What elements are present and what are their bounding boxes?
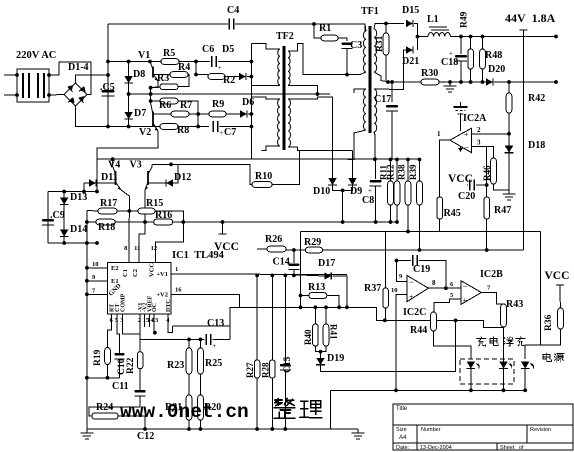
resistor R44: [431, 312, 437, 331]
inductor L1: [429, 27, 449, 30]
junction: [250, 125, 254, 129]
wire pin1 rail: [171, 273, 347, 276]
wire R2 to D5: [225, 76, 239, 78]
wire C5 column: [107, 24, 109, 127]
junction: [299, 294, 303, 298]
diode D11: [89, 179, 96, 186]
capacitor C19: [413, 255, 418, 266]
wire R7 to R9: [189, 113, 209, 115]
capacitor C8: [370, 180, 382, 183]
junction: [384, 22, 388, 26]
diode D7: [124, 112, 133, 119]
resistor R21: [186, 395, 192, 420]
junction: [95, 241, 99, 245]
wire R24 right: [118, 416, 145, 429]
junction: [394, 388, 398, 392]
junction: [250, 112, 254, 116]
junction: [255, 274, 259, 278]
svg-text:10: 10: [92, 261, 99, 268]
wire R40R41 join: [315, 346, 326, 352]
TF1 secondary upper: [374, 29, 377, 72]
dashed indicator box: [460, 359, 514, 384]
junction: [554, 35, 558, 39]
junction: [250, 60, 254, 64]
svg-text:+: +: [409, 293, 414, 302]
junction: [194, 60, 198, 64]
ground: [449, 82, 451, 86]
junction: [395, 158, 399, 162]
wire C10 col: [119, 352, 121, 354]
resistor R8: [160, 124, 178, 130]
junction: [111, 157, 115, 161]
resistor R27: [254, 360, 260, 378]
wire R40 col: [314, 307, 316, 324]
wire C2 pin up: [139, 222, 145, 263]
wire rail250 start: [257, 248, 267, 250]
wire TF2 prim upper bot: [251, 84, 280, 86]
wire D6 to node: [248, 113, 251, 115]
svg-text:R45: R45: [444, 208, 461, 219]
wire TF2 sec lower bot: [288, 147, 353, 151]
resistor R41: [323, 324, 329, 346]
junction: [127, 92, 131, 96]
wire pin1 to D17: [294, 275, 325, 276]
junction: [324, 305, 328, 309]
wire D10 drop: [342, 190, 344, 222]
resistor R15: [138, 208, 155, 214]
svg-text:C20: C20: [458, 191, 475, 202]
junction: [554, 80, 558, 84]
wire bottom rail: [87, 428, 358, 430]
wire base rail y61: [108, 61, 196, 63]
capacitor C11: [135, 390, 146, 393]
wire TF2 node column: [250, 44, 252, 160]
wire C14 bot: [293, 269, 295, 274]
diode D21: [406, 46, 413, 53]
diode D6: [240, 110, 247, 117]
wire C9 column: [47, 192, 49, 244]
junction: [255, 427, 259, 431]
svg-text:R37: R37: [364, 283, 381, 294]
AC line filter T0: [17, 69, 49, 102]
junction: [196, 112, 200, 116]
svg-text:+: +: [219, 129, 223, 137]
junction: [389, 220, 393, 224]
wire rail82 mid: [439, 81, 486, 83]
svg-text:C3: C3: [350, 40, 362, 51]
diode D5: [239, 73, 246, 80]
wire rail211 right: [155, 211, 183, 222]
svg-text:R23: R23: [167, 360, 184, 371]
wire R11 down: [390, 205, 392, 222]
wire COMP to R22: [122, 314, 140, 352]
svg-text:D7: D7: [134, 108, 146, 119]
junction: [406, 230, 410, 234]
junction: [250, 75, 254, 79]
wire TF2 sec upper bot: [288, 85, 317, 94]
svg-text:+: +: [212, 342, 216, 350]
wire D15 out: [414, 24, 418, 51]
terminal marker: [520, 30, 528, 37]
wire x540 drop: [540, 232, 542, 346]
wire V3 emitter: [144, 190, 146, 222]
svg-text:R31: R31: [375, 35, 385, 52]
wire IC2A minus in: [471, 146, 486, 185]
resistor R40: [313, 324, 319, 346]
wire TF1 prim bot: [347, 72, 366, 75]
wire D11 cathode: [96, 182, 116, 184]
wire rail222 right: [173, 221, 397, 223]
wire TF1 leftlower bot: [348, 130, 366, 160]
svg-text:R3: R3: [157, 73, 169, 84]
svg-text:Title: Title: [396, 406, 408, 412]
junction: [95, 190, 99, 194]
junction: [292, 274, 296, 278]
svg-text:VCC: VCC: [149, 263, 156, 277]
wire IC2C minus: [397, 261, 408, 282]
wire R9 to D6: [226, 113, 240, 115]
wire TF1 sec upper top: [374, 24, 404, 30]
junction: [374, 220, 378, 224]
wire R31 bottom: [385, 55, 387, 81]
resistor R6: [160, 98, 178, 104]
junction: [194, 73, 198, 77]
wire IC2C out: [428, 287, 461, 289]
wire C18 down: [460, 61, 462, 82]
wire AC in top: [4, 74, 17, 76]
wire R36 bot: [525, 329, 560, 359]
wire LED rail to gnd: [330, 390, 332, 429]
junction: [181, 220, 185, 224]
wire C19 loop left: [397, 260, 412, 262]
svg-text:R9: R9: [212, 99, 224, 110]
wire R36 top: [559, 295, 562, 308]
wire R27 bot: [256, 378, 258, 429]
svg-text:−: −: [464, 143, 469, 153]
wire LED2 bot: [503, 369, 505, 391]
resistor R18: [96, 219, 115, 225]
svg-text:R27: R27: [245, 362, 255, 378]
svg-text:C8: C8: [362, 195, 374, 206]
TF1 secondary lower: [374, 89, 377, 132]
wire bridge top out: [76, 75, 109, 83]
wire bridge bottom out: [76, 106, 109, 127]
wire -V2 stub: [144, 314, 146, 327]
wire vert x300 lower: [300, 296, 302, 308]
resistor R10: [252, 182, 272, 188]
resistor R17: [98, 208, 117, 214]
svg-text:C14: C14: [273, 257, 290, 268]
svg-text:R48: R48: [485, 50, 502, 61]
wire D8 column: [128, 62, 130, 127]
svg-text:D5: D5: [222, 44, 234, 55]
svg-text:+: +: [463, 296, 468, 305]
wire R23 col: [188, 339, 190, 348]
wire IC2A plus in: [471, 133, 509, 135]
wire R13 left: [301, 295, 309, 297]
junction: [148, 60, 152, 64]
junction: [507, 132, 511, 136]
wire C3 down: [346, 49, 348, 75]
resistor R4: [170, 72, 188, 78]
svg-text:1: 1: [175, 266, 178, 273]
wire D5 to node: [247, 76, 251, 78]
wire R46 bot: [494, 184, 510, 190]
svg-text:R22: R22: [126, 357, 136, 374]
junction: [507, 80, 511, 84]
resistor R16: [154, 219, 173, 225]
wire C6 to node: [218, 61, 251, 63]
junction: [341, 220, 345, 224]
wire C1 pin up: [128, 211, 130, 263]
svg-text:R29: R29: [304, 237, 321, 248]
wire -V1 wire: [139, 314, 141, 339]
wire R3-R4 join: [178, 75, 189, 87]
wire gnd link y378: [87, 377, 120, 379]
junction: [454, 319, 458, 323]
wire TF1 sec lower top: [374, 50, 406, 90]
junction: [386, 80, 390, 84]
diode D18: [505, 146, 514, 153]
wire TF2 sec lower top: [288, 97, 333, 178]
wire IC2B plus: [434, 299, 461, 314]
wire R28 bot: [271, 378, 273, 429]
svg-text:8: 8: [432, 279, 436, 287]
svg-text:D12: D12: [174, 172, 191, 183]
wire TF1 leftlower top: [354, 89, 366, 93]
svg-text:16: 16: [175, 286, 182, 293]
IC U1 TL494 body: [108, 263, 172, 315]
junction: [47, 93, 51, 97]
wire C17 column: [391, 82, 393, 102]
label charge: [477, 337, 499, 346]
wire R3 left: [151, 87, 160, 88]
wire R48 top: [482, 37, 484, 50]
svg-text:C15: C15: [283, 356, 293, 373]
svg-text:C1: C1: [122, 269, 129, 277]
junction: [314, 305, 318, 309]
junction: [319, 350, 323, 354]
wire C8 down: [375, 186, 377, 222]
TF2 secondary lower: [288, 99, 290, 147]
svg-text:R39: R39: [408, 164, 418, 180]
svg-text:Number: Number: [421, 427, 441, 433]
svg-text:D15: D15: [402, 5, 419, 16]
svg-text:3: 3: [477, 139, 481, 147]
wire R49 top: [470, 37, 472, 50]
junction: [106, 125, 110, 129]
wire gnd to IC2A: [460, 113, 462, 131]
op-amp IC2B: [461, 281, 481, 305]
junction: [187, 427, 191, 431]
resistor R3: [160, 84, 178, 90]
wire R38 down: [407, 205, 409, 232]
resistor R1: [321, 35, 338, 41]
resistor R45: [437, 197, 443, 219]
junction: [485, 248, 489, 252]
svg-text:Size: Size: [396, 427, 407, 433]
svg-text:R1: R1: [319, 23, 331, 34]
svg-text:+V1: +V1: [156, 271, 168, 278]
junction: [283, 274, 287, 278]
junction: [345, 305, 349, 309]
svg-text:R47: R47: [494, 205, 511, 216]
diode D9: [348, 178, 357, 185]
svg-text:R28: R28: [261, 362, 271, 378]
svg-text:220V AC: 220V AC: [16, 50, 56, 61]
wire R48 bot: [482, 69, 484, 82]
wire rail250 right: [323, 249, 524, 251]
op-amp IC2C: [407, 276, 428, 302]
wire D11 anode: [84, 182, 89, 184]
junction: [448, 80, 452, 84]
junction: [395, 220, 399, 224]
bridge rectifier D1-4: [64, 83, 87, 106]
resistor R20: [198, 395, 204, 420]
svg-text:10: 10: [391, 287, 398, 294]
wire right vert x524: [523, 37, 525, 251]
svg-text:D18: D18: [528, 140, 545, 151]
wire CT to C10: [117, 314, 120, 352]
svg-text:R13: R13: [308, 282, 325, 293]
wire rail y94: [129, 93, 151, 95]
wire R22 to C11: [139, 369, 141, 390]
wire D9 top: [352, 151, 354, 179]
svg-text:R26: R26: [265, 234, 282, 245]
wire xfmr to bridge top: [49, 62, 91, 95]
wire TF1 sec lower bot: [374, 132, 375, 160]
wire TF2 prim upper top: [251, 44, 280, 49]
junction: [502, 388, 506, 392]
junction: [85, 292, 89, 296]
junction: [143, 220, 147, 224]
junction: [106, 60, 110, 64]
svg-text:+: +: [218, 64, 222, 72]
wire R19 bot: [107, 365, 109, 378]
svg-text:D17: D17: [318, 258, 335, 269]
capacitor C7: [213, 121, 218, 132]
svg-text:C7: C7: [224, 127, 236, 138]
wire rail y94b: [151, 93, 330, 95]
wire R4 to R2: [196, 74, 208, 76]
wire V1 emitter: [151, 81, 158, 94]
junction: [106, 73, 110, 77]
ground bottom left: [86, 429, 88, 433]
diode D13: [60, 198, 69, 205]
wire D19 out: [321, 320, 456, 371]
wire IC2A out: [440, 140, 450, 197]
wire R47 down: [486, 219, 488, 250]
junction: [199, 338, 203, 342]
wire DTC to C13 loop: [168, 314, 172, 333]
wire C6 line: [196, 61, 210, 63]
resistor R48: [480, 49, 486, 69]
capacitor C13: [206, 334, 211, 345]
svg-text:C18: C18: [441, 57, 458, 68]
wire R21 bot: [188, 420, 190, 429]
TF2 primary upper: [278, 49, 280, 85]
junction: [444, 286, 448, 290]
op-amp IC2A: [450, 128, 472, 152]
svg-text:D20: D20: [488, 64, 505, 75]
svg-text:D10: D10: [313, 186, 330, 197]
capacitor C18: [455, 55, 467, 58]
svg-text:R43: R43: [506, 299, 523, 310]
svg-text:−: −: [409, 277, 414, 287]
wire C13 line: [140, 338, 205, 340]
wire TF1 sec upper bot: [374, 72, 390, 82]
svg-text:2: 2: [477, 126, 481, 134]
svg-text:Sheet of: Sheet of: [500, 445, 524, 451]
ground above IC2A: [460, 102, 462, 107]
junction: [469, 35, 473, 39]
capacitor C4: [229, 19, 234, 30]
wire rail211 mid: [117, 210, 138, 212]
svg-text:C11: C11: [112, 381, 129, 392]
junction: [85, 220, 89, 224]
svg-text:R49: R49: [460, 11, 470, 28]
junction: [292, 248, 296, 252]
wire R13 right: [327, 296, 339, 308]
wire rail307 left hook: [230, 307, 240, 326]
diode D12: [166, 179, 173, 186]
wire IC2B out: [481, 293, 503, 305]
junction: [270, 427, 274, 431]
TF1 primary: [363, 31, 366, 72]
svg-text:D1-4: D1-4: [68, 62, 89, 73]
wire VCC-C20: [467, 184, 468, 186]
wire IC pin 10: [87, 267, 108, 269]
wire R27 col: [256, 275, 258, 360]
resistor R42: [506, 93, 512, 113]
transformer TF2 core: [283, 46, 286, 150]
watermark zhengli: [274, 399, 322, 419]
junction: [283, 427, 287, 431]
svg-text:R4: R4: [178, 62, 190, 73]
diode D10: [328, 178, 337, 185]
wire vert x300: [300, 232, 302, 296]
transistor V3: [145, 164, 152, 190]
svg-text:C12: C12: [137, 431, 154, 442]
wire R39 down: [419, 205, 421, 250]
wire xfmr to bridge left: [49, 94, 64, 97]
svg-text:R30: R30: [421, 68, 438, 79]
svg-text:OC: OC: [152, 303, 158, 312]
wire D17 out: [332, 276, 347, 307]
junction: [312, 22, 316, 26]
wire AC in bottom: [4, 94, 17, 96]
resistor R11: [388, 181, 394, 205]
wire R12 down: [396, 205, 398, 222]
resistor R31: [383, 33, 389, 55]
resistor R19: [105, 348, 111, 365]
wire R43 to LED2: [503, 327, 505, 363]
resistor R36: [558, 308, 564, 329]
wire R44 bot: [434, 331, 471, 359]
svg-text:R46: R46: [482, 165, 492, 181]
svg-text:R38: R38: [397, 164, 407, 180]
junction: [196, 125, 200, 129]
ground bottom mid: [357, 429, 359, 433]
resistor R29: [306, 247, 323, 253]
wire D10-D9 join: [333, 185, 353, 190]
wire rail y159: [97, 158, 420, 160]
title block frame: [393, 404, 573, 450]
resistor R46: [491, 158, 497, 184]
wire R31 top: [385, 24, 387, 34]
svg-text:IC1 TL494: IC1 TL494: [172, 250, 225, 261]
wire R4 base: [153, 74, 170, 76]
